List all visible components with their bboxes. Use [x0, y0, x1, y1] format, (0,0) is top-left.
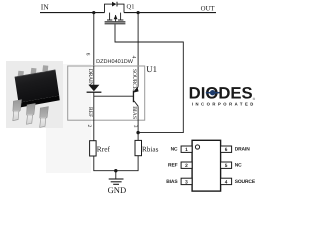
pinout pin 3: [181, 178, 192, 185]
logo O diode mark: [206, 92, 220, 94]
svg-text:SOURCE: SOURCE: [131, 69, 137, 91]
resistor Rref: [90, 141, 97, 156]
package body front face: [19, 96, 60, 108]
resistor Rbias: [135, 140, 142, 155]
svg-text:DRAIN: DRAIN: [87, 69, 93, 86]
svg-text:INCORPORATED: INCORPORATED: [192, 102, 254, 107]
svg-text:GND: GND: [108, 185, 127, 195]
svg-text:OUT: OUT: [201, 5, 216, 12]
pinout pin 1: [181, 146, 192, 153]
svg-text:REF: REF: [87, 107, 93, 117]
package body top face: [15, 70, 60, 103]
node junction dot drain: [92, 11, 95, 14]
svg-text:NC: NC: [235, 163, 242, 169]
node junction dot source-out: [137, 11, 140, 14]
pinout pin1 marker circle: [195, 145, 199, 149]
lead front 3: [40, 107, 49, 128]
wire OUT rail right segment: [124, 12, 216, 14]
svg-text:3: 3: [185, 179, 188, 185]
svg-text:DIODES: DIODES: [189, 85, 253, 103]
svg-text:6: 6: [84, 53, 90, 56]
svg-text:BIAS: BIAS: [131, 106, 137, 119]
svg-text:DRAIN: DRAIN: [235, 147, 251, 153]
package body top highlight edge: [15, 70, 56, 77]
svg-text:DZDH0401DW: DZDH0401DW: [96, 59, 134, 65]
IC U1 box: [68, 66, 145, 120]
package photo SOT-26: [13, 65, 60, 127]
svg-text:BIAS: BIAS: [166, 179, 178, 185]
svg-text:NC: NC: [171, 147, 178, 153]
wire drain drop from rail to U1 pin6: [93, 13, 95, 66]
svg-text:4: 4: [131, 56, 137, 59]
svg-text:Rbias: Rbias: [142, 145, 159, 153]
wire IN rail left segment: [40, 12, 105, 14]
photo light band behind REF branch: [46, 64, 91, 173]
wire source rise from U1 pin4 to rail: [137, 13, 139, 87]
ground symbol: [109, 171, 124, 185]
lead back 3: [42, 65, 48, 71]
lead back 2: [31, 68, 37, 74]
transistor Q1 body-diode loop wires: [104, 4, 124, 13]
svg-text:REF: REF: [168, 163, 178, 169]
transistor internal PNP: [133, 87, 139, 106]
lead front 1: [13, 100, 22, 121]
node junction dot ground: [114, 169, 117, 172]
svg-text:IN: IN: [41, 3, 50, 12]
wire base connection: [94, 95, 133, 97]
pinout pin 4: [221, 178, 232, 185]
svg-text:SOURCE: SOURCE: [235, 179, 256, 185]
diode internal reference diode: [87, 66, 102, 141]
photo background: [6, 61, 63, 128]
wire bias drop to resistor: [137, 106, 139, 140]
wire gate feedback path: [115, 24, 183, 132]
svg-text:U1: U1: [146, 64, 157, 74]
svg-text:2: 2: [185, 163, 188, 169]
lead front 2: [27, 104, 36, 125]
pinout pin 2: [181, 162, 192, 169]
pinout pin 6: [221, 146, 232, 153]
node junction dot bias-feedback: [136, 131, 139, 134]
svg-text:Q1: Q1: [127, 3, 135, 10]
transistor Q1 MOSFET symbol: [105, 13, 126, 25]
pinout IC body: [192, 140, 221, 191]
diode body diode of Q1: [112, 2, 117, 7]
svg-text:5: 5: [225, 163, 228, 169]
svg-text:3: 3: [132, 125, 138, 128]
svg-text:6: 6: [225, 147, 228, 153]
svg-text:Rref: Rref: [97, 144, 111, 153]
lead back 1: [18, 71, 24, 78]
wire bottom return: [93, 156, 138, 171]
svg-text:1: 1: [185, 147, 188, 153]
logo DIODES: [189, 85, 256, 107]
svg-text:2: 2: [86, 125, 92, 128]
svg-text:4: 4: [225, 179, 228, 185]
pinout pin 5: [221, 162, 232, 169]
